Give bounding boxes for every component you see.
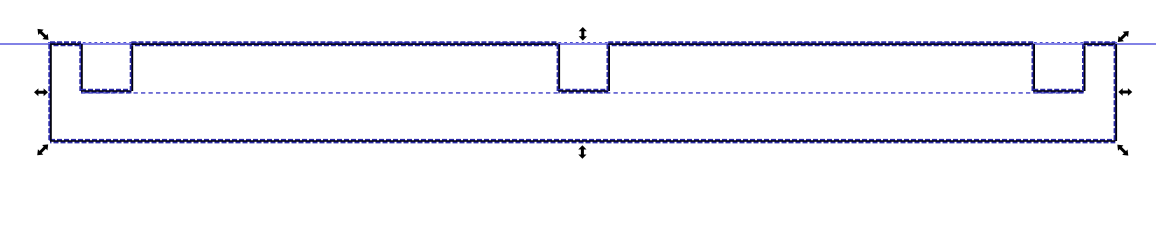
- wire notch2-right-wall: [608, 44, 610, 91]
- wire top-edge-2: [131, 42, 558, 45]
- wire notch1-right-wall: [131, 44, 133, 91]
- wire right-edge: [1115, 44, 1117, 141]
- node handle-right-middle: [1118, 88, 1132, 96]
- wire top-edge-1: [50, 42, 81, 45]
- wire notch3-right-wall: [1083, 44, 1085, 91]
- wire notch2-bottom: [558, 90, 608, 93]
- wire notch3-bottom: [1033, 90, 1084, 93]
- node axis-guide-line: [0, 43, 1156, 45]
- wire left-edge: [49, 44, 51, 141]
- wire notch1-bottom: [81, 90, 131, 93]
- wire top-edge-4: [1084, 42, 1116, 45]
- node handle-top-right: [1118, 31, 1129, 42]
- wire dashed-construction-line: [81, 92, 1084, 94]
- wire notch3-left-wall: [1033, 44, 1035, 91]
- node handle-top-middle: [579, 27, 587, 41]
- node handle-bottom-middle: [578, 145, 586, 159]
- wire notch2-left-wall: [558, 44, 560, 91]
- node handle-bottom-right: [1117, 145, 1128, 156]
- wire notch1-left-wall: [80, 44, 82, 91]
- wire top-edge-3: [608, 42, 1033, 45]
- node selection-bbox-dashed-top: [48, 42, 1117, 44]
- wire bottom-edge: [50, 140, 1115, 142]
- node handle-left-middle: [34, 88, 48, 96]
- node handle-top-left: [38, 29, 49, 40]
- node handle-bottom-left: [37, 144, 48, 155]
